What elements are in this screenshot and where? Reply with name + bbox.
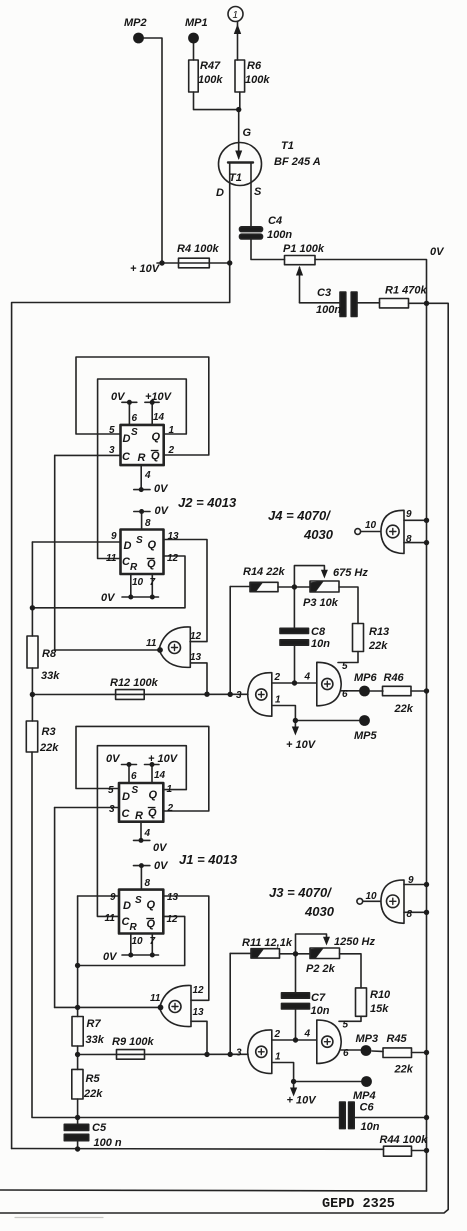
svg-text:4030: 4030: [304, 904, 335, 919]
svg-text:6: 6: [131, 771, 137, 782]
svg-text:J2 = 4013: J2 = 4013: [178, 495, 237, 510]
svg-text:22k: 22k: [39, 742, 59, 754]
svg-text:S: S: [131, 427, 138, 438]
svg-text:3: 3: [109, 804, 115, 815]
svg-text:C4: C4: [268, 215, 282, 227]
svg-text:10: 10: [365, 520, 377, 531]
svg-text:13: 13: [190, 652, 202, 663]
svg-text:2: 2: [274, 1029, 281, 1040]
svg-text:R5: R5: [86, 1073, 101, 1085]
svg-text:12: 12: [167, 914, 179, 925]
svg-text:4: 4: [304, 1029, 311, 1040]
svg-text:P2 2k: P2 2k: [306, 963, 336, 975]
svg-text:R13: R13: [369, 626, 389, 638]
svg-text:R: R: [130, 922, 138, 933]
svg-text:10n: 10n: [311, 638, 330, 650]
svg-text:33k: 33k: [41, 670, 60, 682]
svg-text:9: 9: [408, 875, 414, 886]
svg-text:15k: 15k: [370, 1003, 389, 1015]
svg-text:T1: T1: [281, 140, 294, 152]
svg-text:8: 8: [145, 878, 151, 889]
svg-text:R3: R3: [42, 726, 56, 738]
svg-text:R: R: [138, 452, 146, 464]
svg-text:1: 1: [275, 1052, 281, 1063]
svg-text:R47: R47: [200, 60, 221, 72]
svg-text:R9 100k: R9 100k: [112, 1036, 154, 1048]
svg-text:1: 1: [275, 695, 281, 706]
svg-text:22k: 22k: [394, 703, 414, 715]
svg-text:MP5: MP5: [354, 730, 378, 742]
svg-text:MP2: MP2: [124, 17, 147, 29]
svg-text:GEPD 2325: GEPD 2325: [322, 1197, 395, 1212]
svg-text:7: 7: [150, 577, 156, 588]
svg-text:R45: R45: [387, 1033, 408, 1045]
svg-text:6: 6: [132, 413, 138, 424]
svg-text:11: 11: [146, 638, 157, 649]
svg-text:14: 14: [154, 770, 166, 781]
svg-text:0V: 0V: [154, 483, 169, 495]
svg-text:R46: R46: [384, 672, 405, 684]
svg-text:100n: 100n: [267, 229, 292, 241]
svg-text:Q: Q: [148, 807, 157, 819]
svg-text:R8: R8: [42, 648, 57, 660]
svg-text:S: S: [135, 895, 142, 906]
svg-text:4: 4: [144, 470, 151, 481]
svg-text:D: D: [123, 900, 131, 912]
svg-text:R11 12,1k: R11 12,1k: [242, 937, 293, 949]
svg-text:5: 5: [108, 785, 114, 796]
svg-text:0V: 0V: [101, 592, 116, 604]
svg-text:11: 11: [105, 913, 116, 924]
svg-text:Q: Q: [147, 558, 156, 570]
svg-text:1: 1: [233, 10, 239, 21]
svg-text:MP1: MP1: [185, 17, 208, 29]
svg-text:11: 11: [150, 993, 161, 1004]
svg-text:J1 = 4013: J1 = 4013: [179, 852, 238, 867]
svg-text:R14 22k: R14 22k: [243, 566, 285, 578]
svg-text:4: 4: [304, 672, 311, 683]
svg-text:4: 4: [144, 828, 151, 839]
svg-text:10n: 10n: [311, 1005, 330, 1017]
svg-text:8: 8: [406, 534, 412, 545]
svg-text:+ 10V: + 10V: [286, 739, 317, 751]
svg-text:+ 10V: + 10V: [287, 1095, 318, 1107]
svg-text:C7: C7: [311, 992, 326, 1004]
svg-text:22k: 22k: [368, 640, 388, 652]
svg-text:C3: C3: [317, 287, 331, 299]
svg-text:D: D: [122, 791, 130, 803]
svg-text:T1: T1: [229, 172, 242, 184]
svg-text:+ 10V: + 10V: [148, 753, 179, 765]
svg-text:MP4: MP4: [353, 1090, 376, 1102]
svg-text:C8: C8: [311, 626, 326, 638]
svg-text:6: 6: [343, 1048, 349, 1059]
svg-text:+10V: +10V: [145, 391, 173, 403]
svg-text:22k: 22k: [83, 1088, 103, 1100]
svg-text:D: D: [124, 540, 132, 552]
svg-text:6: 6: [342, 689, 348, 700]
svg-text:C5: C5: [92, 1122, 107, 1134]
svg-text:100n: 100n: [316, 304, 341, 316]
svg-text:13: 13: [193, 1007, 205, 1018]
svg-text:9: 9: [111, 531, 117, 542]
svg-text:Q: Q: [148, 539, 157, 551]
svg-text:Q: Q: [152, 431, 161, 443]
svg-text:C: C: [122, 451, 131, 463]
svg-text:R44 100k: R44 100k: [380, 1134, 429, 1146]
svg-text:Q: Q: [147, 899, 156, 911]
svg-text:14: 14: [153, 412, 165, 423]
svg-text:675 Hz: 675 Hz: [333, 567, 368, 579]
svg-text:Q: Q: [151, 450, 160, 462]
svg-text:R: R: [130, 562, 138, 573]
svg-text:33k: 33k: [86, 1034, 105, 1046]
svg-text:R: R: [135, 810, 143, 822]
svg-text:10: 10: [132, 577, 144, 588]
svg-text:0V: 0V: [103, 951, 118, 963]
svg-text:8: 8: [145, 518, 151, 529]
svg-text:G: G: [243, 127, 252, 139]
svg-text:P3 10k: P3 10k: [303, 597, 339, 609]
svg-text:12: 12: [167, 553, 179, 564]
svg-text:10: 10: [132, 936, 144, 947]
svg-text:1: 1: [167, 784, 173, 795]
svg-text:22k: 22k: [394, 1064, 414, 1076]
svg-text:2: 2: [274, 672, 281, 683]
svg-text:BF 245 A: BF 245 A: [274, 156, 321, 168]
svg-text:8: 8: [407, 909, 413, 920]
svg-text:0V: 0V: [153, 842, 168, 854]
svg-text:5: 5: [342, 661, 348, 672]
svg-text:S: S: [136, 535, 143, 546]
svg-text:2: 2: [167, 803, 174, 814]
svg-text:9: 9: [406, 509, 412, 520]
svg-text:C6: C6: [360, 1102, 375, 1114]
svg-text:13: 13: [167, 892, 179, 903]
svg-text:MP3: MP3: [356, 1033, 379, 1045]
svg-text:13: 13: [168, 531, 180, 542]
svg-text:C: C: [122, 808, 131, 820]
svg-text:0V: 0V: [155, 505, 170, 517]
svg-text:11: 11: [106, 553, 117, 564]
svg-text:0V: 0V: [430, 246, 445, 258]
svg-text:100k: 100k: [245, 74, 270, 86]
svg-text:10n: 10n: [361, 1121, 380, 1133]
svg-text:R12 100k: R12 100k: [110, 677, 159, 689]
svg-text:Q: Q: [147, 918, 156, 930]
svg-text:12: 12: [190, 631, 202, 642]
svg-text:+ 10V: + 10V: [130, 263, 161, 275]
svg-text:R4 100k: R4 100k: [177, 243, 219, 255]
svg-text:MP6: MP6: [354, 672, 378, 684]
svg-text:S: S: [254, 186, 262, 198]
svg-text:P1 100k: P1 100k: [283, 243, 325, 255]
svg-text:4030: 4030: [303, 527, 334, 542]
svg-text:D: D: [123, 433, 131, 445]
svg-text:Q: Q: [149, 789, 158, 801]
svg-text:3: 3: [109, 445, 115, 456]
svg-text:7: 7: [150, 936, 156, 947]
svg-text:5: 5: [343, 1020, 349, 1031]
svg-text:J3 = 4070/: J3 = 4070/: [269, 885, 332, 900]
svg-text:J4 = 4070/: J4 = 4070/: [268, 508, 331, 523]
svg-text:R10: R10: [370, 989, 391, 1001]
svg-text:D: D: [216, 187, 224, 199]
svg-text:R7: R7: [87, 1018, 102, 1030]
svg-text:12: 12: [193, 985, 205, 996]
svg-text:9: 9: [110, 892, 116, 903]
svg-text:100 n: 100 n: [94, 1137, 122, 1149]
svg-text:0V: 0V: [111, 391, 126, 403]
svg-text:0V: 0V: [106, 753, 121, 765]
svg-text:1: 1: [169, 425, 175, 436]
svg-text:0V: 0V: [154, 860, 169, 872]
svg-text:R1 470k: R1 470k: [385, 285, 427, 297]
svg-text:3: 3: [236, 1048, 242, 1059]
svg-text:100k: 100k: [198, 74, 223, 86]
svg-text:5: 5: [109, 425, 115, 436]
svg-text:S: S: [132, 785, 139, 796]
svg-text:R6: R6: [247, 60, 262, 72]
svg-text:1250 Hz: 1250 Hz: [334, 936, 375, 948]
svg-text:10: 10: [366, 891, 378, 902]
svg-text:2: 2: [168, 445, 175, 456]
svg-text:3: 3: [236, 690, 242, 701]
